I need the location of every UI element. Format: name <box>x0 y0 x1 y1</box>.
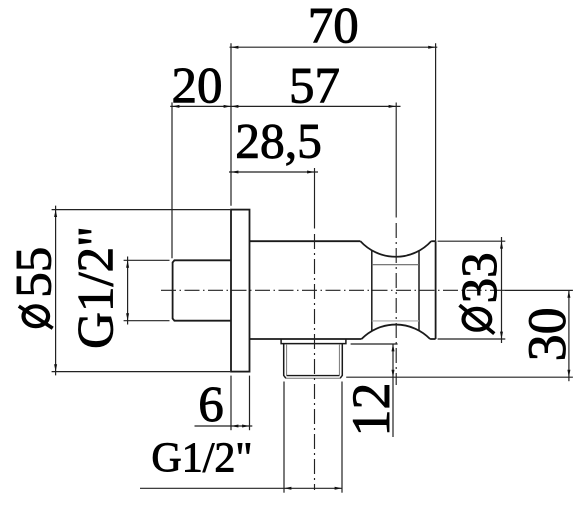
dim G1/2 left ext top <box>124 259 170 261</box>
dim 30/12 ext bottom <box>346 376 573 378</box>
horizontal centerline <box>161 289 505 291</box>
svg-text:G1/2": G1/2" <box>151 436 252 482</box>
dim 12 line <box>392 344 394 437</box>
body top edge <box>250 240 361 242</box>
arrow 28,5 right <box>307 171 314 174</box>
waist left vertical <box>371 250 373 331</box>
thread minor line right <box>338 344 340 376</box>
svg-text:G1/2": G1/2" <box>69 226 125 349</box>
outlet stub centerline solid upper part <box>314 168 316 229</box>
arrow 6 left <box>231 425 238 428</box>
holder centerline solid upper part <box>395 103 397 218</box>
arrow G1/2 bottom right <box>335 487 342 490</box>
arrow 57 left <box>231 105 238 108</box>
svg-text:20: 20 <box>172 58 223 114</box>
dim o33 ext top <box>438 240 506 242</box>
svg-text:33: 33 <box>453 252 509 303</box>
arrow 30 top <box>567 290 570 297</box>
dim o33 ext bottom <box>438 338 506 340</box>
dim 70 ext line left <box>230 43 232 206</box>
bottom concave arc of holder <box>362 325 431 339</box>
arrow 12 bottom <box>392 370 395 377</box>
arrow 30 bottom <box>567 370 570 377</box>
groove lower line <box>372 320 419 322</box>
thread minor line left <box>286 344 288 376</box>
outlet stub vertical centerline <box>314 234 316 490</box>
thread end line <box>287 375 340 377</box>
arrow 20 left <box>172 105 179 108</box>
svg-text:57: 57 <box>289 58 340 114</box>
svg-text:28,5: 28,5 <box>235 114 322 169</box>
top concave arc of holder <box>360 241 431 257</box>
dim 28,5 line <box>229 171 318 173</box>
holder vertical centerline <box>395 223 397 385</box>
dim G1/2 bottom ext left <box>283 382 285 493</box>
dim 70 line <box>230 46 438 48</box>
arrow 12 top <box>392 344 395 351</box>
label o33 diameter symbol <box>464 309 491 330</box>
dim G1/2 bottom ext right <box>341 382 343 493</box>
arrow o55 bottom <box>54 364 57 371</box>
groove upper line <box>372 264 419 266</box>
arrow 6 right <box>242 425 249 428</box>
outlet bottom face <box>286 377 340 379</box>
body top edge right segment <box>431 240 435 242</box>
arrow 20 right <box>224 105 231 108</box>
label o55 diameter symbol <box>24 306 49 326</box>
arrow 57 right <box>389 105 396 108</box>
dim 6 line <box>195 425 253 427</box>
svg-text:70: 70 <box>308 0 359 54</box>
dim o33 line <box>501 237 503 343</box>
dim 6 ext right <box>249 376 251 431</box>
svg-text:12: 12 <box>341 383 401 437</box>
waist right vertical <box>418 251 420 331</box>
dim o55 ext bottom <box>52 371 230 373</box>
dim o55 line <box>55 206 57 376</box>
outlet collar <box>281 339 346 344</box>
arrow G1/2 left bottom <box>126 313 129 320</box>
dim 30 line <box>568 290 570 381</box>
body bottom edge right segment <box>430 338 436 340</box>
dim 30 ext top <box>505 289 573 291</box>
arrow o33 bottom <box>500 332 503 339</box>
outlet thread outer right <box>340 344 342 379</box>
svg-text:55: 55 <box>7 247 63 298</box>
arrow o33 top <box>500 241 503 248</box>
dim G1/2 bottom line <box>140 487 342 489</box>
wall stub pipe G1/2 male <box>173 260 231 320</box>
dim o55 ext top <box>52 209 230 211</box>
dim 20/57 line <box>170 105 400 107</box>
arrow 70 left <box>231 46 238 49</box>
body bottom edge <box>250 338 362 340</box>
dim 6 ext left <box>230 376 232 431</box>
arrow G1/2 bottom left <box>284 487 291 490</box>
arrow 28,5 left <box>231 171 238 174</box>
svg-text:30: 30 <box>517 307 577 361</box>
arrow o55 top <box>54 210 57 217</box>
dim 20 ext line <box>171 102 173 258</box>
flange (wall plate, side view) <box>231 210 250 372</box>
dim G1/2 left line <box>127 257 129 325</box>
body right end face <box>435 241 437 339</box>
arrow 70 right <box>428 46 435 49</box>
svg-text:6: 6 <box>198 378 224 434</box>
dim G1/2 left ext bottom <box>124 320 170 322</box>
dim 12 ext top <box>351 343 398 345</box>
dim 70 ext line right <box>435 43 437 241</box>
outlet thread outer left <box>284 344 286 379</box>
arrow G1/2 left top <box>126 260 129 267</box>
